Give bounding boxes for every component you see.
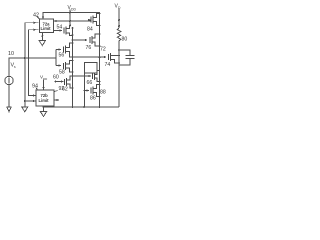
transistor Q60 gate stub (55, 81, 62, 83)
node Vs label (11, 63, 17, 70)
wire: top rail VDD y=12.5 (43, 13, 100, 108)
wire: right rail x=119 top (118, 19, 120, 21)
svg-text:92: 92 (59, 86, 65, 92)
svg-text:72: 72 (100, 47, 106, 53)
transistor Q84 top right (90, 17, 92, 23)
svg-text:84: 84 (87, 27, 93, 33)
transistor Q56 gate (56, 49, 61, 51)
svg-text:66: 66 (87, 80, 93, 86)
wire: Q60 drain to Q66 gate (67, 76, 91, 80)
transistor Q76 labels (100, 47, 110, 69)
svg-text:88: 88 (100, 90, 106, 96)
transistor Q78 (89, 37, 91, 43)
wire: right rail x=119 lower (118, 41, 120, 107)
node 42 label (33, 13, 39, 19)
node 92 label (59, 86, 65, 92)
wire: box2 output arrow (54, 99, 58, 101)
ground below box1 (41, 33, 43, 41)
resistor R80 (117, 28, 121, 41)
capacitor C82 (126, 55, 135, 57)
capacitor C82 top link (119, 50, 130, 55)
wire: gate split vertical x=56 (55, 50, 57, 66)
svg-text:DD: DD (71, 8, 76, 12)
wire: feedback rail y=21 into box1 right (56, 20, 91, 22)
junction: input node (24, 57, 26, 59)
current source I1 (5, 76, 13, 84)
svg-text:54: 54 (57, 25, 63, 31)
svg-text:Limit: Limit (39, 98, 50, 103)
capacitor C82 bottom link (119, 59, 130, 65)
transistor Q54 (63, 28, 65, 34)
node 94 label (32, 84, 38, 90)
wire: Q60 source to mid rail (67, 84, 73, 88)
transistor Q76 gate arrow (104, 56, 107, 58)
wire: VDD2 drop into box2 (43, 80, 45, 90)
node VDD2 label (40, 75, 47, 81)
svg-text:s: s (14, 65, 16, 69)
wire: left input to box1 y=29.7 (29, 30, 39, 58)
transistor Q54 gate wire from box1 (54, 30, 61, 32)
svg-text:80: 80 (122, 37, 128, 43)
wire: arrow into box1 top (42, 17, 44, 20)
svg-text:60: 60 (53, 75, 59, 81)
ground below box2 (43, 106, 45, 111)
wire: left rail into box2 y=101 and ground (24, 58, 26, 107)
svg-text:86: 86 (90, 96, 96, 102)
transistor Q76 (108, 54, 110, 60)
box1 limit amp 72a (40, 19, 54, 33)
svg-text:Limit: Limit (41, 26, 52, 31)
transistor Q56 (63, 47, 65, 53)
transistor Q88 (90, 88, 92, 94)
transistor Q78 gate wire (73, 39, 88, 41)
wire: left input to box1 y=22.7 (25, 23, 39, 58)
wire: block to bottom rail x=84.5 (84, 73, 86, 107)
node VD label (115, 4, 122, 11)
svg-text:58: 58 (59, 70, 65, 76)
node 86 label (90, 96, 96, 102)
node VDD label (68, 5, 77, 12)
transistor Q62 (63, 63, 65, 69)
wire: bottom rail y=107 (44, 106, 120, 108)
svg-text:76: 76 (86, 45, 92, 51)
wire: mid rail x=72.5 (72, 28, 74, 107)
transistor Q60 (64, 79, 66, 85)
block rectangle (85, 63, 98, 74)
wire: source to output arrow (8, 85, 10, 107)
wire: left rail into box2 y=95 (29, 58, 36, 96)
box2 limit amp 72b (36, 90, 54, 106)
wire: input line Vs and left drop (9, 58, 56, 77)
transistor Q62 gate (56, 65, 61, 67)
svg-text:10: 10 (8, 51, 14, 57)
svg-text:74: 74 (105, 62, 111, 68)
transistor Q66 (92, 74, 94, 80)
node 66 label (87, 80, 93, 86)
node 10 label (8, 51, 14, 57)
wire: VDD drop x=70 (69, 10, 71, 27)
svg-text:D: D (118, 6, 121, 10)
svg-text:56: 56 (59, 53, 65, 59)
transistor Q88 gate wire (85, 90, 89, 92)
